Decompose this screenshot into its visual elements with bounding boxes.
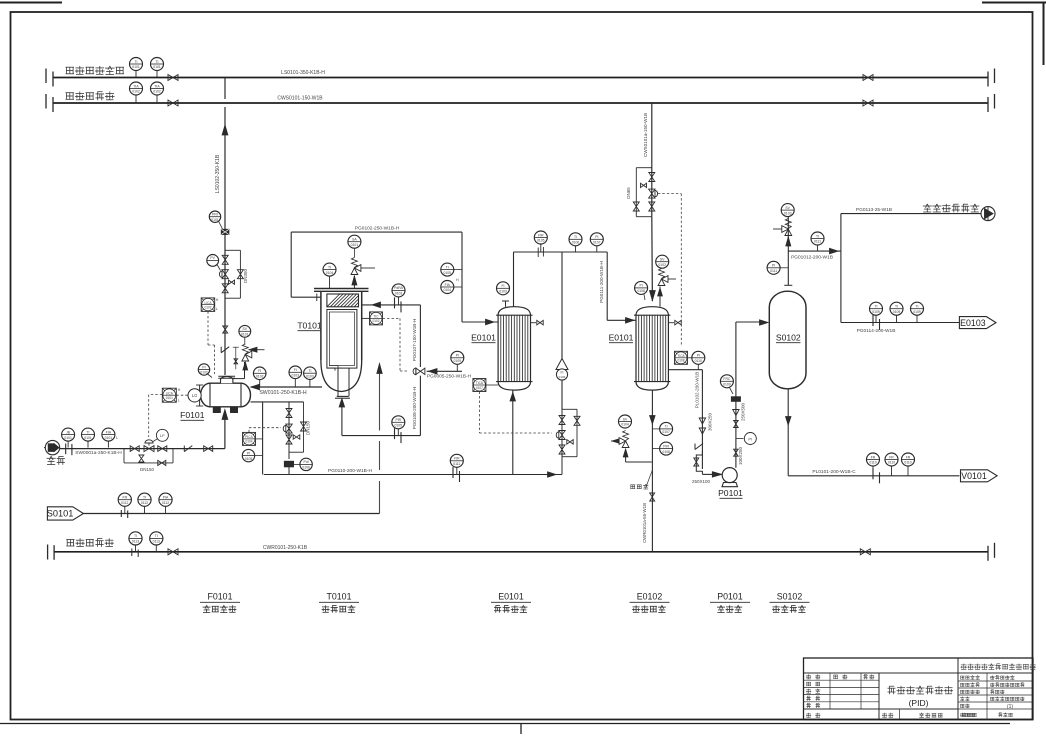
- svg-text:0111: 0111: [453, 462, 460, 466]
- svg-text:PG0114-200-W1B: PG0114-200-W1B: [857, 328, 896, 334]
- svg-text:(PID): (PID): [909, 698, 929, 708]
- svg-text:FR: FR: [889, 455, 894, 459]
- svg-text:CWR0101a-65-W1B: CWR0101a-65-W1B: [642, 503, 647, 543]
- svg-text:TI: TI: [816, 234, 819, 238]
- svg-text:LS0102-350-K1B: LS0102-350-K1B: [215, 154, 221, 193]
- svg-text:SW0001a-250-K1B-H: SW0001a-250-K1B-H: [75, 450, 122, 456]
- svg-text:0106: 0106: [559, 375, 566, 379]
- svg-text:TI: TI: [134, 60, 137, 64]
- svg-text:LICA: LICA: [204, 301, 212, 305]
- svg-text:L: L: [178, 399, 180, 403]
- svg-text:0109: 0109: [723, 383, 731, 387]
- svg-text:PI: PI: [202, 365, 205, 369]
- svg-text:TI: TI: [574, 235, 577, 239]
- svg-text:0109: 0109: [872, 310, 880, 314]
- svg-text:PG0111-200-W1B-H: PG0111-200-W1B-H: [599, 261, 604, 303]
- svg-text:0101: 0101: [211, 218, 219, 222]
- svg-text:0107: 0107: [662, 430, 670, 434]
- svg-text:0102: 0102: [153, 90, 161, 94]
- svg-text:E0101: E0101: [609, 333, 634, 343]
- svg-text:FIA: FIA: [106, 430, 112, 434]
- svg-text:0111: 0111: [770, 269, 777, 273]
- svg-text:PG0102-250-W1B-H: PG0102-250-W1B-H: [355, 226, 400, 232]
- svg-text:FIR: FIR: [538, 233, 544, 237]
- svg-text:TI: TI: [155, 60, 158, 64]
- svg-text:TI: TI: [308, 369, 311, 373]
- svg-text:0108: 0108: [662, 450, 670, 454]
- svg-text:0110: 0110: [888, 461, 895, 465]
- svg-text:PI: PI: [456, 354, 459, 358]
- svg-text:PICA: PICA: [245, 435, 253, 439]
- svg-text:PdRA: PdRA: [394, 286, 404, 290]
- svg-text:TI: TI: [895, 305, 898, 309]
- svg-text:L: L: [216, 307, 218, 311]
- svg-text:S0101: S0101: [47, 509, 74, 519]
- svg-text:300X250: 300X250: [708, 413, 713, 432]
- svg-text:FR: FR: [123, 496, 128, 500]
- svg-text:F0101: F0101: [180, 410, 205, 420]
- svg-text:0102: 0102: [256, 375, 264, 379]
- svg-text:PIA: PIA: [163, 496, 169, 500]
- svg-text:(1): (1): [1007, 704, 1013, 710]
- svg-text:TI: TI: [665, 425, 668, 429]
- svg-text:0101: 0101: [351, 243, 359, 247]
- svg-text:P0101: P0101: [717, 592, 743, 602]
- svg-text:0112: 0112: [141, 501, 148, 505]
- svg-text:S0102: S0102: [776, 333, 801, 343]
- svg-text:F0101: F0101: [208, 592, 233, 602]
- svg-text:PG0113-25-W1B: PG0113-25-W1B: [856, 207, 892, 213]
- svg-text:SV: SV: [660, 258, 665, 262]
- svg-text:SW0101-250-K1B-H: SW0101-250-K1B-H: [259, 390, 307, 396]
- svg-text:0101: 0101: [84, 436, 92, 440]
- svg-text:0109: 0109: [913, 310, 921, 314]
- svg-text:H: H: [178, 388, 181, 392]
- svg-text:0101: 0101: [153, 65, 161, 69]
- svg-text:PI: PI: [748, 436, 752, 441]
- svg-text:0102: 0102: [658, 263, 666, 267]
- svg-text:PV: PV: [210, 256, 215, 260]
- svg-text:PdI: PdI: [304, 460, 309, 464]
- svg-text:FR: FR: [906, 455, 911, 459]
- svg-text:TIA: TIA: [154, 84, 160, 88]
- svg-text:TIC: TIC: [373, 315, 379, 319]
- svg-text:0110: 0110: [904, 461, 911, 465]
- svg-text:FRC: FRC: [723, 377, 731, 381]
- svg-text:E0103: E0103: [960, 318, 986, 328]
- svg-text:0102: 0102: [200, 371, 208, 375]
- svg-text:TI: TI: [143, 496, 146, 500]
- svg-text:0101: 0101: [64, 436, 72, 440]
- svg-text:TI: TI: [328, 265, 331, 269]
- svg-text:PI: PI: [697, 354, 700, 358]
- svg-text:0103: 0103: [395, 292, 403, 296]
- svg-text:PG0108-200-W1B-H: PG0108-200-W1B-H: [412, 387, 417, 429]
- svg-text:E0101: E0101: [471, 333, 496, 343]
- svg-text:PI: PI: [639, 284, 642, 288]
- svg-text:0102: 0102: [372, 319, 379, 323]
- svg-text:E0102: E0102: [637, 592, 663, 602]
- svg-text:0105: 0105: [245, 457, 253, 461]
- svg-text:0105: 0105: [395, 424, 403, 428]
- svg-text:0113: 0113: [132, 540, 139, 544]
- svg-text:0101: 0101: [241, 333, 249, 337]
- svg-text:0104: 0104: [621, 423, 629, 427]
- svg-text:0107: 0107: [593, 241, 601, 245]
- svg-text:V0101: V0101: [961, 471, 987, 481]
- svg-text:100X250: 100X250: [738, 447, 743, 466]
- svg-text:PG0005-250-W1B-H: PG0005-250-W1B-H: [427, 374, 472, 380]
- svg-text:0107: 0107: [476, 386, 483, 390]
- svg-text:E0101: E0101: [498, 592, 524, 602]
- svg-text:0103: 0103: [306, 374, 314, 378]
- svg-text:0109: 0109: [893, 310, 901, 314]
- svg-text:0112: 0112: [121, 501, 128, 505]
- svg-text:TI: TI: [86, 430, 89, 434]
- svg-text:0101: 0101: [166, 396, 173, 400]
- svg-text:0111: 0111: [814, 240, 821, 244]
- svg-text:FIR: FIR: [454, 457, 460, 461]
- svg-text:DN150: DN150: [306, 421, 311, 436]
- svg-text:FI: FI: [501, 284, 504, 288]
- svg-text:SA: SA: [352, 238, 357, 242]
- svg-text:0109: 0109: [454, 359, 462, 363]
- svg-text:0102: 0102: [204, 305, 211, 309]
- svg-text:TICA: TICA: [476, 381, 484, 385]
- svg-text:SV: SV: [243, 327, 248, 331]
- svg-text:PI: PI: [595, 235, 598, 239]
- svg-text:DN150: DN150: [140, 467, 155, 472]
- svg-text:DN65: DN65: [626, 187, 631, 199]
- svg-text:0101: 0101: [105, 436, 113, 440]
- svg-text:0102: 0102: [132, 90, 140, 94]
- svg-text:SV: SV: [785, 206, 790, 210]
- svg-text:DN350: DN350: [243, 269, 248, 284]
- svg-text:S0102: S0102: [777, 592, 803, 602]
- svg-text:P0101: P0101: [718, 488, 743, 498]
- svg-text:PG0110-200-W1B-H: PG0110-200-W1B-H: [328, 468, 372, 474]
- svg-text:0104: 0104: [444, 288, 452, 292]
- svg-text:0105: 0105: [444, 271, 452, 275]
- svg-text:0113: 0113: [153, 540, 160, 544]
- svg-text:0106: 0106: [302, 466, 310, 470]
- svg-text:TI: TI: [134, 534, 137, 538]
- svg-text:PIR: PIR: [663, 444, 669, 448]
- svg-text:0101: 0101: [132, 65, 140, 69]
- svg-text:LF: LF: [160, 433, 165, 438]
- svg-text:PRI: PRI: [212, 213, 218, 217]
- svg-text:TIA: TIA: [133, 84, 139, 88]
- svg-text:0108: 0108: [677, 359, 684, 363]
- svg-text:SV: SV: [623, 417, 628, 421]
- svg-text:T0101: T0101: [327, 592, 352, 602]
- svg-text:CWR0101-250-K1B: CWR0101-250-K1B: [263, 545, 308, 551]
- svg-text:TI: TI: [915, 305, 918, 309]
- svg-text:0108: 0108: [637, 289, 645, 293]
- svg-text:TI: TI: [446, 265, 449, 269]
- svg-text:PL0102-200-W1B: PL0102-200-W1B: [695, 372, 700, 409]
- svg-text:CWS0101a-150-W1B: CWS0101a-150-W1B: [643, 113, 648, 157]
- svg-text:PG01012-200-W1B: PG01012-200-W1B: [791, 255, 833, 261]
- svg-text:250X100: 250X100: [692, 479, 711, 484]
- svg-text:FI: FI: [258, 369, 261, 373]
- svg-text:0103: 0103: [784, 211, 792, 215]
- svg-text:0110: 0110: [695, 359, 702, 363]
- svg-text:LS0101-350-K1B-H: LS0101-350-K1B-H: [281, 70, 325, 76]
- svg-text:PI: PI: [247, 451, 250, 455]
- svg-text:TI: TI: [874, 305, 877, 309]
- svg-text:PL0101-200-W1B-C: PL0101-200-W1B-C: [812, 469, 856, 475]
- svg-text:LICA: LICA: [166, 391, 174, 395]
- svg-text:0106: 0106: [572, 241, 580, 245]
- svg-text:H: H: [456, 278, 459, 282]
- svg-text:250X500: 250X500: [741, 403, 746, 422]
- svg-text:0104: 0104: [326, 271, 334, 275]
- svg-text:TICA: TICA: [677, 354, 685, 358]
- svg-text:FR: FR: [871, 455, 876, 459]
- svg-text:PI: PI: [772, 264, 775, 268]
- svg-text:LG: LG: [192, 393, 198, 398]
- svg-text:0104: 0104: [245, 440, 252, 444]
- svg-text:FIA: FIA: [445, 283, 451, 287]
- svg-text:0103: 0103: [499, 290, 507, 294]
- svg-text:0103: 0103: [292, 374, 300, 378]
- svg-text:0110: 0110: [869, 461, 876, 465]
- svg-text:L: L: [116, 436, 118, 440]
- svg-text:T0101: T0101: [297, 321, 322, 331]
- svg-text:PIR: PIR: [395, 418, 401, 422]
- svg-text:CWS0101-150-W1B: CWS0101-150-W1B: [277, 96, 323, 102]
- svg-text:0105: 0105: [537, 239, 545, 243]
- svg-text:PG0107-100-W1B-H: PG0107-100-W1B-H: [412, 319, 417, 361]
- svg-text:FI: FI: [294, 368, 297, 372]
- svg-text:0112: 0112: [162, 501, 169, 505]
- svg-text:TI: TI: [155, 534, 158, 538]
- svg-text:H: H: [216, 298, 219, 302]
